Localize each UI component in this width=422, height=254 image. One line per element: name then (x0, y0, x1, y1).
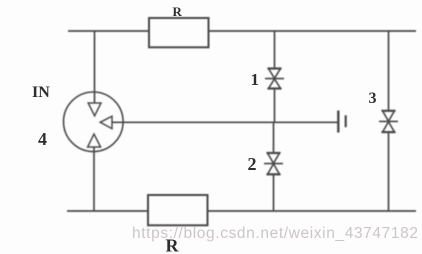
svg-text:1: 1 (251, 70, 260, 89)
TVS diode 1 (265, 69, 284, 89)
svg-text:2: 2 (248, 154, 257, 174)
svg-text:4: 4 (38, 129, 47, 149)
resistor R (bottom) (148, 195, 208, 225)
wire top bus right segment (209, 30, 417, 32)
bottom electrode arrowhead (88, 134, 101, 147)
top electrode arrowhead (88, 103, 101, 116)
wire top lead of diode 1 (274, 31, 276, 69)
svg-text:IN: IN (32, 84, 50, 101)
ground terminal bar short (345, 115, 347, 127)
watermark csdn url (132, 225, 422, 243)
svg-text:3: 3 (369, 90, 377, 107)
wire bottom lead of diode 3 (388, 132, 390, 211)
wire top lead of diode 2 (273, 122, 275, 153)
wire rise from bottom bus to arrester bottom electrode (93, 147, 95, 211)
wire bottom lead of diode 2 (273, 174, 275, 211)
resistor R (top) (149, 18, 209, 47)
wire top lead of diode 3 (388, 31, 390, 111)
wire bottom bus left segment (67, 210, 148, 212)
wire top bus left segment (68, 30, 149, 32)
TVS diode 2 (264, 153, 283, 174)
gas discharge tube V4 circle (64, 92, 124, 152)
center electrode arrowhead (100, 116, 112, 128)
svg-text:R: R (173, 4, 183, 19)
wire center electrode horizontal (112, 121, 339, 123)
ground terminal bar long (337, 111, 339, 133)
TVS diode 3 (379, 111, 398, 132)
wire bottom bus right segment (208, 210, 417, 212)
wire drop from top bus to arrester top electrode (94, 31, 96, 104)
wire bottom lead of diode 1 (274, 89, 276, 123)
